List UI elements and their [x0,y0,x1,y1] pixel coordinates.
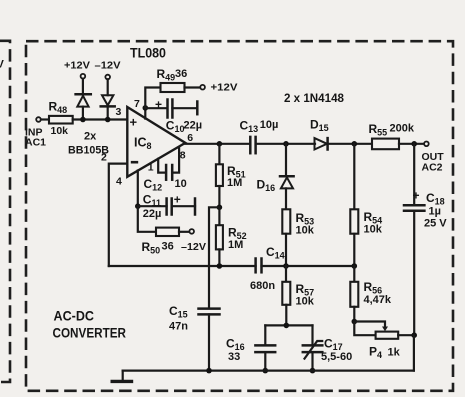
capacitor C18 1u 25V [404,144,447,335]
svg-text:10k: 10k [296,295,315,307]
wire input node to op-amp pin3 [73,117,128,123]
label 2x BB105B [68,130,109,156]
svg-text:33: 33 [228,351,240,363]
potentiometer P4 1k [354,322,417,361]
wire op-amp pin2 (inverting input) [109,164,128,266]
capacitor C16 33 [226,325,275,373]
resistor R53 10k [282,209,314,266]
capacitor C10 22u (pin7 decoupling) [145,97,202,134]
diode D15 1N4148 [310,118,329,150]
svg-text:10: 10 [175,178,187,190]
svg-text:AC2: AC2 [422,161,443,173]
svg-text:10k: 10k [296,225,315,237]
op-amp IC8 triangle [127,107,185,177]
svg-text:200k: 200k [390,123,415,135]
trimmer capacitor C17 5,5-60 [303,325,352,373]
svg-text:6: 6 [187,132,193,144]
resistor R52 1M [216,207,247,266]
resistor R48 10k [49,100,73,137]
wire D15 to R55 [328,141,372,147]
svg-text:CONVERTER: CONVERTER [53,326,127,341]
terminal OUT AC2 [422,142,445,174]
svg-text:4: 4 [116,176,122,188]
capacitor C13 10u [240,119,279,154]
resistor R49 36 with +12V terminal [145,67,237,108]
capacitor C14 680n [250,245,285,292]
svg-text:1: 1 [148,162,154,174]
wire op-amp pin7 [143,105,149,119]
wire op-amp pin4 down [135,171,141,210]
svg-text:22µ: 22µ [143,208,162,220]
svg-text:3: 3 [116,106,122,118]
svg-text:5,5-60: 5,5-60 [321,351,352,363]
diode D16 1N4148 [257,144,294,210]
svg-text:10k: 10k [364,224,383,236]
svg-text:1M: 1M [228,239,243,251]
svg-text:+: + [413,189,420,203]
svg-text:8: 8 [180,150,186,162]
svg-text:+: + [130,115,138,130]
svg-text:AC-DC: AC-DC [54,308,95,323]
resistor R50 36 with -12V terminal [138,206,206,255]
svg-text:+12V: +12V [211,82,238,94]
svg-text:+: + [155,97,162,111]
svg-text:10k: 10k [51,125,69,137]
svg-text:1M: 1M [227,177,242,189]
svg-text:–12V: –12V [181,241,206,253]
varicap diode Db BB105B [101,79,115,119]
svg-text:680n: 680n [250,280,275,292]
wire R55 to OUT [399,141,424,147]
wire C13 to D15 [256,141,315,147]
svg-text:+12V: +12V [64,59,90,71]
capacitor C15 47n [169,304,220,371]
svg-text:2x: 2x [84,130,97,142]
resistor R51 1M [216,144,246,208]
svg-text:–12V: –12V [95,59,121,71]
terminal +12V (varicap bias) [64,59,90,78]
resistor R56 4,47k [350,266,392,324]
svg-text:1k: 1k [388,346,401,358]
svg-text:25 V: 25 V [424,218,447,230]
ground symbol [111,371,134,382]
svg-text:2: 2 [101,152,107,164]
svg-text:V: V [0,59,5,71]
svg-text:TL080: TL080 [130,46,166,61]
svg-text:+: + [174,193,181,207]
capacitor C12 10p (pins 1-8) [144,148,187,193]
svg-text:1µ: 1µ [429,205,441,217]
resistor R57 10k [282,266,314,325]
svg-text:2 x 1N4148: 2 x 1N4148 [284,91,344,105]
svg-text:22µ: 22µ [184,120,203,132]
varicap diode Da BB105B [76,79,91,120]
svg-text:4,47k: 4,47k [364,294,392,306]
label AC-DC CONVERTER [53,308,127,340]
svg-text:7: 7 [134,98,140,110]
wire input to R48 [41,118,49,120]
node R51/R52 junction [217,205,223,211]
capacitor C11 22u (pin4 decoupling) [138,193,195,221]
resistor R54 10k [350,144,382,266]
ground rail [123,335,414,373]
wire output rail pin6 [185,141,250,147]
svg-text:36: 36 [162,240,174,252]
svg-text:36: 36 [175,68,187,80]
terminal INP AC1 [25,117,46,148]
wire C16/C17 top rail [265,324,312,326]
wire feedback node line [109,263,357,269]
terminal -12V (varicap bias) [95,59,121,79]
svg-text:AC1: AC1 [25,136,46,148]
wire node to C15 [209,207,219,308]
resistor R55 200k [369,122,415,149]
svg-text:10µ: 10µ [260,119,279,131]
svg-text:47n: 47n [169,320,188,332]
adjacent circuit frame edge (left fragment) [0,41,10,382]
